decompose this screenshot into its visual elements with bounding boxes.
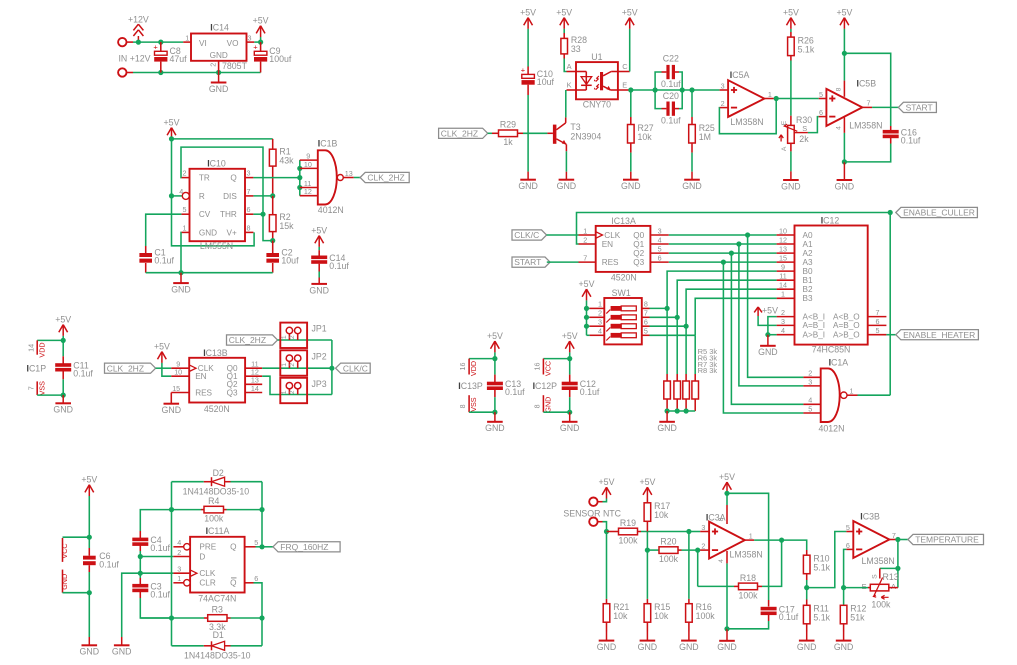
svg-text:5: 5 (658, 245, 662, 254)
wire D row (140, 556, 173, 558)
wire gnd bracket 12P (543, 411, 569, 413)
svg-text:2N3904: 2N3904 (570, 131, 601, 141)
capacitor C2 10uf (266, 241, 299, 273)
ground GND IC12 ref (758, 335, 778, 358)
ground GND R5-R8 (657, 411, 677, 433)
svg-text:TEMPERATURE: TEMPERATURE (915, 535, 979, 545)
ground GND R30 (781, 171, 801, 191)
svg-text:2: 2 (721, 99, 725, 108)
IC1A bubble pin 1 (841, 387, 858, 399)
node junction (61, 393, 66, 398)
node junction CLK/C (329, 366, 334, 371)
ground GND 555 (171, 273, 191, 295)
node junction out5A (774, 96, 779, 101)
svg-text:+5V: +5V (579, 279, 595, 289)
wire CLK row (140, 572, 173, 574)
svg-text:+5V: +5V (719, 472, 735, 482)
svg-text:4520N: 4520N (204, 404, 230, 414)
node junction (492, 410, 497, 415)
pin 3 VO (247, 34, 255, 43)
svg-text:13: 13 (345, 169, 353, 178)
svg-text:0.1uf: 0.1uf (329, 261, 349, 271)
power +5V IC5B (836, 7, 852, 53)
IC12 pin 4 A&gt;B_I (777, 326, 825, 339)
svg-text:K: K (567, 81, 572, 90)
wire vdd bracket 13P (469, 358, 495, 360)
svg-text:6: 6 (876, 317, 880, 326)
svg-text:+: + (253, 43, 258, 52)
node junction (158, 40, 163, 45)
svg-text:+: + (153, 43, 158, 52)
resistor R16 100k (686, 532, 716, 632)
svg-text:GND: GND (112, 647, 132, 657)
svg-text:15: 15 (172, 384, 180, 393)
wire C6 down (88, 593, 90, 637)
pin 6 - (846, 541, 853, 550)
pin C (618, 62, 630, 72)
svg-text:EN: EN (195, 372, 206, 381)
flag START in (512, 257, 550, 267)
capacitor C14 0.1uf (311, 247, 349, 278)
transistor T3 2N3904 (553, 117, 601, 151)
IC12 pin 7 A&lt;B_O (833, 308, 886, 321)
svg-text:R4: R4 (208, 496, 219, 506)
svg-text:ENABLE_HEATER: ENABLE_HEATER (903, 330, 975, 340)
svg-text:15: 15 (779, 254, 787, 263)
resistor R25 1M (689, 90, 715, 172)
svg-text:5: 5 (254, 538, 258, 547)
wire R29 to base (518, 132, 553, 134)
svg-text:6: 6 (819, 108, 823, 117)
ground GND RES (162, 393, 182, 416)
pin 5 Q (230, 538, 258, 552)
power +5V C pin (622, 7, 638, 71)
wire Q1 to JP3 (262, 376, 332, 394)
svg-text:IC14: IC14 (210, 22, 229, 32)
svg-text:3: 3 (248, 34, 252, 43)
wire out down (897, 540, 899, 588)
svg-text:2: 2 (289, 335, 296, 339)
pin 11 (300, 179, 318, 188)
svg-text:R: R (199, 192, 205, 201)
svg-text:B3: B3 (803, 294, 813, 303)
svg-text:A: A (567, 62, 572, 71)
node junction in10 (297, 166, 302, 171)
svg-text:0.1uf: 0.1uf (901, 135, 921, 145)
node junction r7 (684, 408, 689, 413)
svg-text:+12V: +12V (128, 14, 149, 24)
svg-text:IN +12V: IN +12V (118, 53, 150, 63)
node junction R4L (169, 507, 174, 512)
svg-text:2: 2 (177, 548, 181, 557)
wire CLK gnd riser (122, 573, 141, 637)
wire to -in (698, 549, 701, 551)
wire -in riser (844, 549, 847, 587)
wire Q out (256, 546, 263, 548)
svg-text:+: + (521, 66, 526, 75)
wire +5V loop C16 (844, 53, 890, 126)
svg-text:2: 2 (289, 363, 296, 367)
svg-text:5: 5 (846, 523, 850, 532)
node junction (258, 40, 263, 45)
node junction (158, 70, 163, 75)
svg-text:5: 5 (183, 205, 187, 214)
IC12 pin 2 A&lt;B_I (777, 308, 825, 321)
svg-text:ENABLE_CULLER: ENABLE_CULLER (903, 208, 975, 218)
trimmer R13 100k (862, 568, 899, 609)
wire out row (754, 539, 782, 541)
pin 6 Q3 (633, 254, 669, 267)
svg-text:1: 1 (850, 387, 854, 396)
svg-text:+5V: +5V (487, 331, 503, 341)
svg-text:3: 3 (598, 318, 602, 327)
svg-text:GND: GND (679, 642, 699, 652)
pin 2 - (700, 542, 709, 551)
power +5V SW1 (579, 279, 595, 335)
svg-text:SENSOR NTC: SENSOR NTC (563, 508, 621, 518)
power +12V (128, 14, 149, 42)
node junction pin8 (842, 51, 847, 56)
pin 4 PRE (173, 538, 216, 552)
IC13A 4520N box (596, 216, 651, 283)
svg-text:3: 3 (721, 81, 725, 90)
pin 3 + (720, 81, 729, 90)
svg-text:GND: GND (682, 181, 702, 191)
svg-text:0.1uf: 0.1uf (73, 369, 93, 379)
ground GND R11 (797, 632, 817, 653)
jumper JP2 (280, 350, 326, 375)
svg-text:GND: GND (210, 51, 228, 60)
svg-text:+5V: +5V (762, 306, 778, 316)
resistor R26 5.1k (788, 29, 815, 126)
resistor R5 3k (664, 308, 671, 411)
wire R13 A (889, 587, 898, 589)
svg-text:3: 3 (177, 565, 181, 574)
svg-text:12: 12 (779, 235, 787, 244)
node junction inQ (297, 175, 302, 180)
wire B1 link (677, 280, 776, 317)
svg-text:VCC: VCC (60, 543, 69, 558)
flag FRQ_160HZ (262, 542, 340, 552)
ground GND R21 (597, 632, 617, 653)
pin 2 D (173, 548, 205, 561)
svg-text:2: 2 (583, 235, 587, 244)
power +5V sensor (599, 477, 615, 502)
svg-text:3: 3 (658, 226, 662, 235)
svg-text:A=B_I: A=B_I (803, 321, 826, 330)
pin 2 (803, 369, 820, 378)
svg-text:C22: C22 (663, 54, 679, 64)
node junction sw3 (584, 324, 589, 329)
resistor R10 5.1k (803, 550, 830, 588)
flag CLK_2HZ out (360, 172, 409, 182)
svg-text:FRQ_160HZ: FRQ_160HZ (280, 542, 328, 552)
capacitor C22 0.1uf (655, 54, 682, 90)
IC11A 74AC74N box (190, 526, 245, 603)
node junction (169, 136, 174, 141)
svg-text:4: 4 (177, 538, 181, 547)
pin 1 VI (183, 34, 191, 43)
svg-text:A: A (781, 146, 788, 151)
flag CLK_2HZ in (105, 363, 156, 373)
svg-text:1: 1 (281, 363, 288, 367)
svg-text:8: 8 (247, 223, 251, 232)
node junction sw2 (584, 315, 589, 320)
wire A2 to IC1A p4 (731, 253, 803, 404)
svg-text:R8 3k: R8 3k (698, 366, 718, 375)
pin 8 VSS (458, 395, 478, 412)
pin 1 out (745, 531, 754, 540)
svg-text:LM555N: LM555N (200, 241, 233, 251)
wire K to collector (565, 90, 567, 117)
svg-text:GND: GND (638, 642, 658, 652)
resistor R18 100k (698, 573, 762, 601)
svg-text:10: 10 (174, 368, 182, 377)
svg-text:1N4148DO35-10: 1N4148DO35-10 (184, 650, 251, 660)
svg-text:R13: R13 (883, 572, 899, 582)
wire out to R10 (782, 540, 807, 550)
svg-text:PRE: PRE (199, 543, 216, 552)
pin A (567, 62, 577, 72)
svg-text:U1: U1 (591, 52, 602, 62)
svg-text:A2: A2 (803, 249, 813, 258)
ground GND R27 (621, 172, 641, 191)
svg-text:0.1uf: 0.1uf (505, 387, 525, 397)
svg-text:A1: A1 (803, 240, 813, 249)
wire out to IC5B (776, 98, 819, 100)
flag ENABLE_CULLER (896, 207, 978, 217)
svg-text:VSS: VSS (469, 397, 478, 412)
node junction R pin (169, 193, 174, 198)
svg-text:1: 1 (183, 223, 187, 232)
pin 3 + (700, 523, 709, 532)
svg-text:Q0: Q0 (633, 231, 644, 240)
U1 phototransistor (600, 72, 618, 91)
op-amp IC3A (706, 512, 763, 559)
wire start (547, 261, 579, 263)
wire vss bracket 13P (469, 411, 495, 413)
svg-text:6: 6 (254, 574, 258, 583)
node junction pin4 gnd (765, 332, 770, 337)
svg-text:8: 8 (458, 404, 467, 408)
wire E row (630, 89, 692, 91)
svg-text:43k: 43k (279, 156, 294, 166)
pin 12 (300, 187, 318, 196)
svg-text:2: 2 (598, 309, 602, 318)
svg-text:DIS: DIS (223, 192, 237, 201)
wire R13 E (844, 587, 871, 589)
wire R5-R8 gnd rail (667, 410, 695, 412)
ground GND IC5B (835, 162, 855, 192)
node junction swb1 (675, 315, 680, 320)
wire IC1A out (858, 394, 891, 396)
capacitor C4 0.1uf (132, 531, 170, 557)
capacitor C11 0.1uf (55, 340, 93, 395)
svg-text:LM358N: LM358N (849, 120, 882, 130)
pin 15 RES (171, 384, 212, 397)
wire Q2-A2 (669, 252, 777, 254)
resistor R4 100k (172, 496, 263, 524)
IC12 pin 3 A=B_I (777, 317, 825, 330)
svg-text:D1: D1 (213, 630, 224, 640)
svg-text:Q2: Q2 (633, 249, 644, 258)
pin 7 DIS (223, 187, 253, 201)
svg-text:1: 1 (749, 531, 753, 540)
svg-text:5: 5 (819, 90, 823, 99)
wire R30 bottom (790, 143, 792, 171)
capacitor C9 100uf (253, 42, 292, 72)
diode D1 1N4148 (172, 630, 263, 660)
wire to +in (689, 531, 700, 533)
svg-text:47uf: 47uf (170, 54, 188, 64)
wire EN up to culler rail (577, 213, 891, 245)
node junction sw1 (584, 306, 589, 311)
node junction (61, 338, 66, 343)
resistor R28 33 (561, 29, 587, 54)
svg-text:13: 13 (779, 245, 787, 254)
svg-text:8: 8 (836, 87, 843, 91)
svg-text:IC12: IC12 (821, 215, 840, 225)
svg-text:SW1: SW1 (612, 288, 631, 298)
node junction E (628, 87, 633, 92)
svg-text:+5V: +5V (154, 341, 170, 351)
svg-text:1: 1 (768, 90, 772, 99)
pin 3 CLK (173, 565, 215, 578)
svg-text:CV: CV (199, 210, 211, 219)
svg-text:6: 6 (846, 541, 850, 550)
svg-text:Q: Q (230, 174, 236, 183)
svg-text:51k: 51k (850, 613, 865, 623)
wire clk/c (547, 234, 579, 236)
wire R pin (172, 195, 183, 197)
flag ENABLE_HEATER (886, 330, 978, 340)
node junction in11 (297, 185, 302, 190)
svg-text:IC3B: IC3B (860, 512, 880, 522)
wire Q1-A1 (669, 243, 777, 245)
wire out to START (872, 106, 898, 108)
svg-text:2: 2 (701, 542, 705, 551)
pin 8 GND (533, 395, 553, 412)
pin 13 Q2 (227, 376, 263, 389)
svg-text:5: 5 (808, 404, 812, 413)
resistor R15 10k (644, 599, 670, 632)
wire R28 to A (564, 54, 566, 72)
wire to flag (354, 177, 360, 179)
svg-text:IC5B: IC5B (857, 78, 877, 88)
node junction THR (260, 212, 265, 217)
svg-text:GND: GND (209, 84, 229, 94)
svg-text:+5V: +5V (55, 314, 71, 324)
wire pin2 tie (768, 317, 777, 335)
resistor R19 100k (607, 518, 689, 546)
svg-text:10k: 10k (638, 132, 653, 142)
svg-text:4012N: 4012N (819, 423, 845, 433)
svg-text:6: 6 (658, 254, 662, 263)
svg-text:GND: GND (717, 642, 737, 652)
svg-text:IC1A: IC1A (829, 358, 849, 368)
jumper JP3 (280, 378, 326, 403)
pin 11 Q0 (227, 360, 263, 373)
pin 9 CLK (171, 360, 214, 373)
resistor R2 15k (269, 196, 294, 241)
svg-text:CLK: CLK (604, 231, 620, 240)
capacitor C12 0.1uf (562, 359, 600, 413)
svg-text:GND: GND (60, 574, 69, 590)
pin 7 VSS (26, 381, 46, 396)
ground GND C6 (80, 637, 100, 657)
pin 14 VDD (26, 340, 46, 357)
svg-text:IC12P: IC12P (533, 381, 558, 391)
pin 5 + (846, 523, 853, 532)
svg-text:15k: 15k (279, 221, 294, 231)
node junction minus (695, 548, 700, 553)
wire THR stub join (253, 213, 263, 215)
node junction C22L (653, 87, 658, 92)
ground GND IC13P (485, 412, 505, 433)
node junction A2 (729, 251, 734, 256)
pin 14 Q3 (227, 384, 263, 397)
svg-text:JP2: JP2 (312, 351, 327, 361)
svg-text:Q3: Q3 (227, 388, 238, 397)
wire bottom rail (133, 72, 261, 74)
node junction A1 (736, 241, 741, 246)
pin 6 Qbar (230, 574, 258, 588)
svg-text:GND: GND (834, 642, 854, 652)
wire Q0-A0 (669, 234, 777, 236)
node junction r5 (665, 408, 670, 413)
node junction R12 (841, 585, 846, 590)
svg-text:GND: GND (485, 423, 505, 433)
svg-text:3: 3 (247, 169, 251, 178)
svg-text:GND: GND (560, 423, 580, 433)
pin 2 GND (208, 61, 218, 73)
node junction D (138, 554, 143, 559)
svg-text:VSS: VSS (37, 381, 46, 396)
wire Q3-A3 (669, 261, 777, 263)
power bracket VCC (60, 537, 89, 562)
svg-text:14: 14 (779, 281, 787, 290)
svg-text:100k: 100k (659, 554, 679, 564)
svg-text:+5V: +5V (556, 7, 572, 17)
node junction A0 (745, 232, 750, 237)
svg-text:LM358N: LM358N (730, 549, 763, 559)
svg-text:CLK_2HZ: CLK_2HZ (441, 128, 478, 138)
node junction (87, 535, 92, 540)
svg-text:GND: GND (557, 181, 577, 191)
svg-text:+5V: +5V (253, 16, 269, 26)
resistor R20 100k (647, 537, 697, 565)
svg-text:0.1uf: 0.1uf (150, 543, 170, 553)
pin 5 + (819, 90, 827, 99)
svg-text:THR: THR (220, 210, 237, 219)
power +5V IC3A (719, 472, 735, 494)
svg-text:GND: GND (758, 347, 778, 357)
node junction R4R (259, 507, 264, 512)
wire left riser (171, 482, 173, 646)
node junction R3L (169, 615, 174, 620)
wire wiper link (880, 567, 898, 569)
power +5V rail C9 (253, 16, 269, 43)
node junction pin4 gnd (842, 159, 847, 164)
pin 12 Q1 (227, 368, 263, 381)
pin 3 Q0 (633, 226, 669, 239)
svg-text:R3: R3 (212, 604, 223, 614)
svg-text:GND: GND (199, 228, 217, 237)
svg-text:D: D (199, 552, 205, 561)
jumper JP1 (280, 323, 326, 348)
pin E (618, 81, 630, 91)
capacitor C20 0.1uf (655, 90, 682, 126)
